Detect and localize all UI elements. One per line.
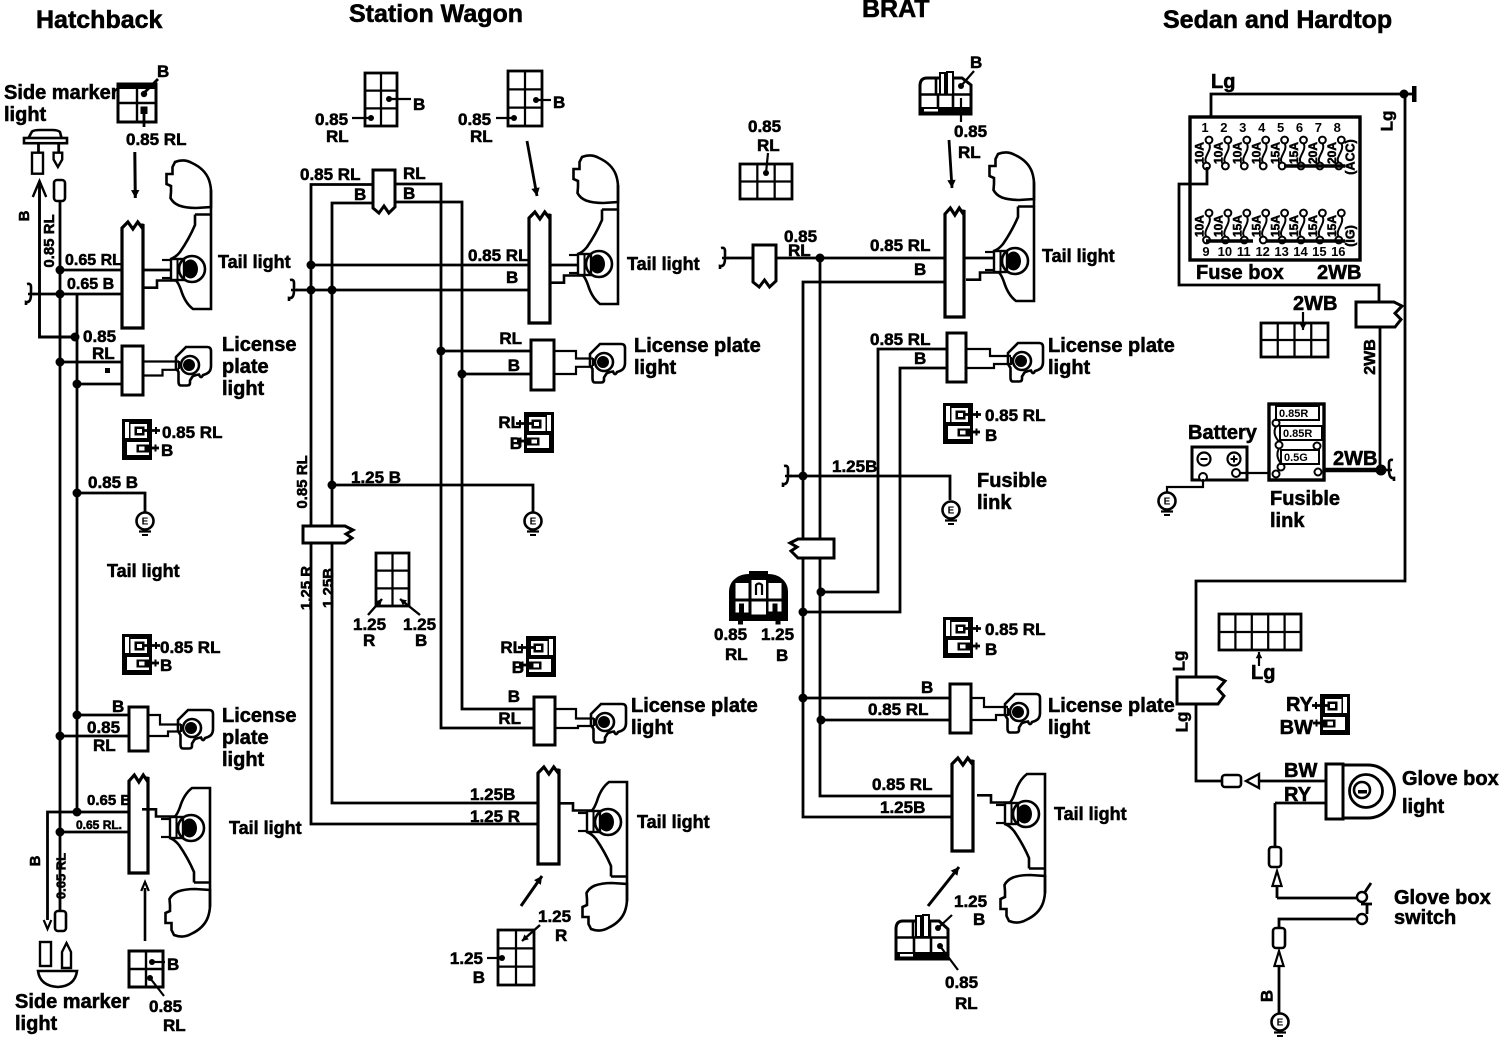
svg-text:B: B bbox=[970, 53, 982, 72]
splice connector (brat) bbox=[790, 539, 834, 558]
svg-text:Lg: Lg bbox=[1377, 111, 1396, 132]
svg-text:E: E bbox=[948, 506, 955, 517]
svg-text:B: B bbox=[512, 658, 524, 677]
wire 0.85 RL to license light 2 (brat) bbox=[821, 719, 971, 722]
svg-text:Tail light: Tail light bbox=[229, 818, 302, 838]
svg-text:0.85 RL: 0.85 RL bbox=[126, 130, 186, 149]
svg-text:10A: 10A bbox=[1212, 142, 1226, 164]
svg-text:B: B bbox=[16, 210, 33, 221]
svg-text:light: light bbox=[222, 749, 265, 771]
svg-text:RL: RL bbox=[757, 136, 780, 155]
svg-text:10: 10 bbox=[1218, 244, 1232, 259]
svg-text:0.85 RL: 0.85 RL bbox=[300, 165, 360, 184]
svg-text:20A: 20A bbox=[1306, 142, 1320, 164]
license plate connector 1 (wagon) bbox=[531, 340, 554, 390]
svg-text:link: link bbox=[1270, 510, 1305, 532]
ground E (sedan bottom) bbox=[1272, 1014, 1289, 1031]
svg-text:light: light bbox=[631, 717, 674, 739]
arrow from connector to tail light connector (wagon) bbox=[527, 141, 537, 196]
svg-text:1.25: 1.25 bbox=[538, 907, 571, 926]
tail light connector bar 2 (wagon) bbox=[538, 767, 559, 864]
svg-text:1.25B: 1.25B bbox=[470, 785, 515, 804]
ground E (wagon) bbox=[525, 513, 542, 530]
license plate light 1 (hatchback) bbox=[176, 347, 211, 386]
splice connector (wagon) bbox=[303, 526, 353, 543]
wire B to license light 1 (brat) bbox=[803, 368, 966, 612]
svg-text:B: B bbox=[508, 687, 520, 706]
tail light connector bar 2 (brat) bbox=[952, 758, 973, 851]
svg-text:E: E bbox=[530, 517, 537, 528]
leads into license light 1 (brat) bbox=[966, 349, 1011, 356]
svg-text:License plate: License plate bbox=[1048, 695, 1175, 717]
svg-text:Hatchback: Hatchback bbox=[36, 6, 163, 34]
svg-text:B: B bbox=[921, 678, 933, 697]
svg-text:Battery: Battery bbox=[1188, 422, 1258, 444]
svg-text:Fusible: Fusible bbox=[1270, 488, 1340, 510]
hook wire end (hatchback) bbox=[26, 284, 35, 305]
connector grid 4x2 (sedan) 2WB bbox=[1261, 323, 1328, 357]
svg-text:8: 8 bbox=[1334, 120, 1341, 135]
svg-text:1.25 B: 1.25 B bbox=[351, 468, 401, 487]
svg-text:Glove box: Glove box bbox=[1394, 887, 1491, 909]
wire B to license light 2 (brat) bbox=[803, 697, 971, 700]
wire B lower to license plate light 1 (hatchback) bbox=[77, 383, 143, 386]
svg-text:RL: RL bbox=[93, 736, 116, 755]
svg-text:RL: RL bbox=[326, 127, 349, 146]
wire 0.85 RL left vertical (wagon) bbox=[311, 185, 538, 825]
svg-text:Tail light: Tail light bbox=[627, 254, 700, 274]
wire B left vertical (wagon) bbox=[332, 203, 538, 803]
arrow down to tail light connector (brat) bbox=[949, 140, 952, 188]
svg-text:light: light bbox=[1048, 357, 1091, 379]
license plate connector 1 (brat) bbox=[947, 333, 966, 382]
ground E (battery) bbox=[1159, 493, 1176, 510]
tail light connector bar 1 (hatchback) bbox=[122, 222, 143, 328]
svg-text:0.85: 0.85 bbox=[149, 997, 182, 1016]
wire B to tail light 1 (wagon) bbox=[296, 289, 529, 292]
svg-text:License plate: License plate bbox=[631, 695, 758, 717]
svg-text:RL: RL bbox=[92, 344, 115, 363]
svg-text:B: B bbox=[161, 441, 173, 460]
license plate light 1 (wagon) bbox=[590, 344, 625, 383]
connector tick at Lg wire end bbox=[1404, 93, 1413, 96]
svg-text:1.25B: 1.25B bbox=[832, 457, 877, 476]
glove box light symbol bbox=[1275, 764, 1395, 819]
svg-text:0.85 RL: 0.85 RL bbox=[41, 214, 58, 267]
svg-text:E: E bbox=[1164, 497, 1171, 508]
svg-text:10A: 10A bbox=[1230, 142, 1244, 164]
svg-text:RY: RY bbox=[1286, 694, 1314, 716]
svg-text:1.25B: 1.25B bbox=[880, 798, 925, 817]
tail light housing 2 (brat) bbox=[977, 774, 1045, 923]
svg-text:License plate: License plate bbox=[634, 335, 761, 357]
tail light housing 1 (wagon) bbox=[550, 155, 618, 304]
svg-text:B: B bbox=[413, 95, 425, 114]
svg-text:E: E bbox=[142, 517, 149, 528]
wire to glove box switch bbox=[1277, 897, 1356, 900]
fuse box outline bbox=[1190, 117, 1360, 260]
svg-text:11: 11 bbox=[1237, 244, 1251, 259]
wire B vertical (brat) bbox=[803, 282, 952, 817]
svg-text:BW: BW bbox=[1284, 760, 1317, 782]
svg-text:0.85: 0.85 bbox=[714, 625, 747, 644]
connector pair 1 (brat) 0.85 RL / B bbox=[943, 403, 981, 444]
svg-text:RL: RL bbox=[498, 413, 521, 432]
svg-text:0.85 RL: 0.85 RL bbox=[985, 620, 1045, 639]
svg-text:RL: RL bbox=[958, 143, 981, 162]
svg-text:0.85 B: 0.85 B bbox=[88, 473, 138, 492]
wire B to license light 1 (wagon) bbox=[462, 373, 554, 376]
connector 3x2 left (brat) bbox=[740, 164, 792, 199]
svg-text:B: B bbox=[157, 62, 169, 81]
wire 0.65 RL to tail light (hatchback) bbox=[60, 269, 171, 272]
connector grid 5x2 (sedan) Lg bbox=[1219, 614, 1301, 650]
svg-text:12: 12 bbox=[1255, 244, 1269, 259]
leads into license light 2 (hatchback) bbox=[148, 715, 181, 725]
leads into license light 2 (brat) bbox=[971, 698, 1008, 707]
side marker light symbol bottom (hatchback) bbox=[40, 942, 51, 966]
license plate light 1 (brat) bbox=[1008, 343, 1043, 382]
connector 2x2 bottom (hatchback) bbox=[129, 951, 163, 987]
connector pair RY / BW (sedan) bbox=[1312, 694, 1350, 735]
svg-text:15A: 15A bbox=[1230, 215, 1244, 237]
wire 0.65 RL to tail light 2 (hatchback) bbox=[60, 831, 148, 834]
svg-text:Lg: Lg bbox=[1169, 651, 1188, 672]
svg-text:15A: 15A bbox=[1268, 215, 1282, 237]
svg-text:Station Wagon: Station Wagon bbox=[349, 0, 523, 28]
wire B vertical (hatchback) bbox=[76, 294, 79, 812]
svg-text:0.85 RL: 0.85 RL bbox=[294, 455, 311, 508]
svg-text:B: B bbox=[510, 434, 522, 453]
wire 0.85 RL left vertical (hatchback) bbox=[59, 200, 62, 911]
tail light housing 1 (hatchback) bbox=[143, 160, 211, 309]
license plate connector 2 (hatchback) bbox=[129, 707, 148, 751]
glove box switch symbol bbox=[1357, 883, 1372, 924]
svg-text:B: B bbox=[508, 356, 520, 375]
svg-text:Side marker: Side marker bbox=[15, 991, 130, 1013]
svg-text:Lg: Lg bbox=[1211, 71, 1235, 93]
wire RL right vertical (wagon) bbox=[395, 184, 534, 728]
license plate connector 2 (wagon) bbox=[534, 697, 555, 745]
svg-text:1.25 R: 1.25 R bbox=[470, 807, 520, 826]
wire 1.25 B to ground (wagon) bbox=[332, 485, 533, 513]
svg-text:Lg: Lg bbox=[1251, 662, 1275, 684]
connector pair 1 (hatchback) 0.85 RL / B bbox=[122, 419, 160, 460]
svg-text:B: B bbox=[776, 646, 788, 665]
wire 0.85 RL to tail light 1 (wagon) bbox=[311, 264, 578, 267]
tail light connector bar 2 (hatchback) bbox=[129, 775, 148, 873]
svg-text:14: 14 bbox=[1293, 244, 1308, 259]
connector pill and arrow (glove box feed) bbox=[1222, 775, 1241, 787]
svg-text:License plate: License plate bbox=[1048, 335, 1175, 357]
connector stub bottom RL (hatchback) bbox=[55, 911, 66, 931]
svg-text:10A: 10A bbox=[1249, 142, 1263, 164]
svg-text:Sedan and Hardtop: Sedan and Hardtop bbox=[1163, 6, 1392, 34]
wire from switch to ground connector bbox=[1279, 919, 1356, 928]
connector pair 2 (brat) 0.85 RL / B bbox=[943, 617, 981, 658]
wire RL vertical (brat) bbox=[820, 258, 952, 796]
svg-text:light: light bbox=[15, 1013, 58, 1035]
license plate connector 2 (brat) bbox=[950, 684, 971, 733]
tail light housing 2 (wagon) bbox=[559, 782, 627, 931]
svg-text:0.65 RL: 0.65 RL bbox=[53, 853, 68, 899]
svg-text:0.85: 0.85 bbox=[954, 122, 987, 141]
svg-text:light: light bbox=[1402, 796, 1445, 818]
svg-text:B: B bbox=[553, 93, 565, 112]
svg-text:Fusible: Fusible bbox=[977, 470, 1047, 492]
svg-text:B: B bbox=[415, 631, 427, 650]
svg-text:0.85: 0.85 bbox=[945, 973, 978, 992]
wire 2WB vertical to fusible link junction bbox=[1379, 327, 1382, 470]
svg-text:0.65 RL.: 0.65 RL. bbox=[76, 818, 122, 832]
connector bottom (brat) bbox=[896, 915, 958, 970]
battery symbol bbox=[1192, 447, 1247, 481]
svg-text:1.25B: 1.25B bbox=[320, 568, 337, 608]
connector pair 1 (wagon) RL / B bbox=[516, 412, 554, 453]
svg-text:light: light bbox=[222, 378, 265, 400]
svg-text:Tail light: Tail light bbox=[1054, 804, 1127, 824]
svg-text:RL: RL bbox=[725, 645, 748, 664]
svg-text:RL: RL bbox=[470, 127, 493, 146]
svg-text:License: License bbox=[222, 705, 296, 727]
svg-text:B: B bbox=[403, 184, 415, 203]
svg-text:0.85: 0.85 bbox=[87, 718, 120, 737]
ground E (brat) bbox=[943, 502, 960, 519]
svg-text:B: B bbox=[914, 349, 926, 368]
license plate light 2 (brat) bbox=[1005, 694, 1040, 733]
svg-text:BW: BW bbox=[1280, 717, 1313, 739]
hook wire end 1.25B (brat) bbox=[783, 466, 792, 487]
svg-text:B: B bbox=[27, 855, 44, 866]
wire Lg down to glove box light bbox=[1196, 704, 1222, 781]
wire Lg from fuse 1 down and around to 2WB connector bbox=[1179, 167, 1379, 303]
svg-text:0.85R: 0.85R bbox=[1283, 428, 1312, 440]
svg-text:RL: RL bbox=[163, 1016, 186, 1035]
connector wavy (sedan glove box feed) bbox=[1177, 677, 1225, 704]
svg-text:Tail light: Tail light bbox=[1042, 246, 1115, 266]
svg-text:light: light bbox=[1048, 717, 1091, 739]
tail light housing 1 (brat) bbox=[966, 152, 1034, 301]
svg-text:switch: switch bbox=[1394, 907, 1456, 929]
svg-text:B: B bbox=[354, 185, 366, 204]
wire B to license plate light 2 (hatchback) bbox=[77, 714, 148, 717]
svg-text:15A: 15A bbox=[1287, 142, 1301, 164]
svg-text:2WB: 2WB bbox=[1362, 339, 1379, 375]
svg-text:0.85 RL: 0.85 RL bbox=[868, 700, 928, 719]
svg-text:B: B bbox=[973, 910, 985, 929]
svg-text:4: 4 bbox=[1258, 120, 1266, 135]
svg-text:RL: RL bbox=[955, 994, 978, 1013]
svg-text:Tail light: Tail light bbox=[637, 812, 710, 832]
wire RY down to switch bbox=[1274, 803, 1277, 847]
tail light connector bar 1 (brat) bbox=[945, 208, 964, 317]
wire B left vertical with up arrow (hatchback) bbox=[40, 181, 74, 337]
svg-text:RL: RL bbox=[498, 709, 521, 728]
leads into license light 2 (wagon) bbox=[555, 709, 594, 719]
connector stub on RL wire (hatchback) bbox=[54, 180, 65, 201]
wire 0.65 B from hook (hatchback) bbox=[33, 293, 122, 296]
svg-text:15A: 15A bbox=[1249, 215, 1263, 237]
svg-text:9: 9 bbox=[1202, 244, 1209, 259]
svg-text:1: 1 bbox=[1201, 120, 1208, 135]
license plate connector 1 (hatchback) bbox=[122, 346, 143, 395]
svg-text:link: link bbox=[977, 492, 1012, 514]
svg-text:RL: RL bbox=[403, 164, 426, 183]
svg-text:1.25: 1.25 bbox=[954, 892, 987, 911]
svg-text:light: light bbox=[4, 104, 47, 126]
svg-text:BRAT: BRAT bbox=[862, 0, 930, 23]
svg-text:0.65 RL: 0.65 RL bbox=[65, 252, 122, 269]
connector pill (RY) bbox=[1269, 847, 1281, 867]
svg-text:15: 15 bbox=[1312, 244, 1326, 259]
svg-text:0.85 RL: 0.85 RL bbox=[870, 330, 930, 349]
svg-text:13: 13 bbox=[1274, 244, 1288, 259]
wire 0.85 RL to license plate light 1 (hatchback) bbox=[60, 361, 143, 364]
svg-text:1.25 R: 1.25 R bbox=[298, 566, 315, 610]
arrow to tail connector 2 (brat) bbox=[928, 867, 959, 906]
svg-text:0.65 B: 0.65 B bbox=[87, 792, 131, 809]
svg-text:light: light bbox=[634, 357, 677, 379]
svg-text:plate: plate bbox=[222, 727, 269, 749]
svg-text:15A: 15A bbox=[1306, 215, 1320, 237]
svg-text:B: B bbox=[985, 640, 997, 659]
svg-text:plate: plate bbox=[222, 356, 269, 378]
arrow up (B) bbox=[1278, 966, 1281, 1014]
wire 0.85 RL to license plate light 2 (hatchback) bbox=[60, 735, 148, 738]
svg-text:0.85 RL: 0.85 RL bbox=[160, 638, 220, 657]
svg-text:15A: 15A bbox=[1325, 215, 1339, 237]
wire 1.25B to ground (brat) bbox=[790, 476, 950, 500]
svg-text:B: B bbox=[160, 656, 172, 675]
svg-text:10A: 10A bbox=[1193, 215, 1207, 237]
connector bar small (wagon rear harness) bbox=[373, 170, 395, 213]
arrow down to tail light connector (hatchback) bbox=[133, 152, 137, 198]
connector top (brat) with B pin bbox=[920, 71, 974, 122]
connector 2x3 top-right (wagon) bbox=[508, 71, 542, 126]
svg-text:R: R bbox=[363, 631, 375, 650]
hook wire end (wagon) bbox=[289, 280, 298, 301]
svg-text:B: B bbox=[914, 260, 926, 279]
svg-text:(ACC): (ACC) bbox=[1343, 139, 1357, 174]
svg-text:B: B bbox=[473, 968, 485, 987]
connector 2x3 detail (wagon splice) bbox=[376, 553, 409, 606]
tail light housing 2 (hatchback) bbox=[142, 788, 210, 937]
svg-text:2WB: 2WB bbox=[1317, 262, 1361, 284]
hook wire end (sedan 2WB) bbox=[1385, 460, 1394, 481]
svg-text:15A: 15A bbox=[1287, 215, 1301, 237]
svg-text:15A: 15A bbox=[1268, 142, 1282, 164]
wire RL to license light 1 (wagon) bbox=[441, 350, 554, 353]
svg-text:10A: 10A bbox=[1193, 142, 1207, 164]
svg-text:Fuse box: Fuse box bbox=[1196, 262, 1284, 284]
wire B right vertical (wagon) bbox=[395, 202, 534, 709]
connector 2x3 bottom detail (wagon) bbox=[498, 930, 534, 985]
svg-text:5: 5 bbox=[1277, 120, 1284, 135]
connector wavy 2WB (sedan) bbox=[1356, 302, 1402, 327]
connector pill (B) bbox=[1273, 928, 1285, 948]
junction dot B join bbox=[71, 333, 80, 342]
license plate light 2 (wagon) bbox=[591, 704, 626, 743]
svg-text:R: R bbox=[555, 926, 567, 945]
svg-text:RL: RL bbox=[500, 638, 523, 657]
wire 0.65 B to tail light 2 (hatchback) bbox=[48, 812, 149, 920]
tail light connector bar 1 (wagon) bbox=[529, 212, 550, 323]
fusible link box (sedan) bbox=[1269, 404, 1324, 480]
svg-text:3: 3 bbox=[1239, 120, 1246, 135]
svg-text:0.5G: 0.5G bbox=[1284, 452, 1308, 464]
svg-text:E: E bbox=[1277, 1018, 1284, 1029]
wire Lg from fuse box to right side bbox=[1211, 94, 1404, 134]
wire battery positive to fusible link bbox=[1240, 472, 1269, 474]
svg-text:10A: 10A bbox=[1212, 215, 1226, 237]
fuses row 1 (1-8) with ratings and ACC bus bbox=[1193, 120, 1358, 175]
license plate light 2 (hatchback) bbox=[178, 710, 213, 749]
leads into license light 1 (wagon) bbox=[554, 351, 593, 359]
arrow up into tail connector 2 (hatchback) bbox=[144, 888, 147, 941]
svg-text:Lg: Lg bbox=[1172, 712, 1191, 733]
connector 2x3 top-left (wagon) bbox=[365, 73, 397, 126]
wire RL to license light 1 (brat) bbox=[821, 349, 966, 592]
arrow to tail connector 2 (wagon) bbox=[521, 876, 542, 906]
svg-text:1.25: 1.25 bbox=[450, 949, 483, 968]
svg-text:Side marker: Side marker bbox=[4, 82, 119, 104]
svg-text:0.85 RL: 0.85 RL bbox=[468, 246, 528, 265]
svg-text:Tail light: Tail light bbox=[218, 252, 291, 272]
side marker light symbol top (hatchback) bbox=[29, 130, 62, 138]
connector pair 2 (wagon) RL / B bbox=[518, 636, 556, 677]
svg-text:6: 6 bbox=[1296, 120, 1303, 135]
svg-text:2WB: 2WB bbox=[1333, 448, 1377, 470]
arrow up (RY) bbox=[1276, 886, 1279, 898]
connector bar small (brat harness) bbox=[753, 245, 776, 287]
svg-text:B: B bbox=[167, 955, 179, 974]
wire battery negative to ground bbox=[1167, 479, 1203, 492]
svg-text:B: B bbox=[985, 426, 997, 445]
svg-text:2: 2 bbox=[1220, 120, 1227, 135]
wire Lg right vertical down to glove box circuit bbox=[1196, 94, 1405, 677]
svg-text:2WB: 2WB bbox=[1293, 293, 1337, 315]
wire thick 2WB from fusible link bbox=[1324, 468, 1382, 473]
fuses row 2 (9-16) with ratings and IG bus bbox=[1193, 210, 1358, 259]
connector 2x2 top (hatchback) with B pin bbox=[118, 84, 156, 122]
wire 0.85 RL feed with junction (brat) bbox=[776, 257, 994, 260]
svg-text:B: B bbox=[506, 268, 518, 287]
svg-text:0.65 B: 0.65 B bbox=[67, 276, 114, 293]
svg-text:Tail light: Tail light bbox=[107, 561, 180, 581]
svg-text:B: B bbox=[1257, 990, 1276, 1002]
wire 0.85 B to ground (hatchback) bbox=[77, 493, 145, 513]
svg-text:RL: RL bbox=[788, 241, 811, 260]
connector pair 2 (hatchback) 0.85 RL / B bbox=[122, 634, 160, 675]
hook and lead into small connector (brat) bbox=[720, 248, 729, 269]
svg-text:7: 7 bbox=[1315, 120, 1322, 135]
svg-text:License: License bbox=[222, 334, 296, 356]
connector plug (brat) 0.85 RL / 1.25 B bbox=[729, 571, 788, 625]
ground E (hatchback) bbox=[137, 513, 154, 530]
svg-text:1.25: 1.25 bbox=[761, 625, 794, 644]
svg-text:0.85 RL: 0.85 RL bbox=[162, 423, 222, 442]
svg-text:0.85 RL: 0.85 RL bbox=[985, 406, 1045, 425]
svg-text:0.85: 0.85 bbox=[748, 117, 781, 136]
svg-text:0.85R: 0.85R bbox=[1279, 408, 1308, 420]
wire BW into glove box light bbox=[1259, 780, 1326, 783]
svg-text:20A: 20A bbox=[1325, 142, 1339, 164]
svg-text:Glove box: Glove box bbox=[1402, 768, 1499, 790]
svg-text:RL: RL bbox=[499, 329, 522, 348]
svg-text:0.85 RL: 0.85 RL bbox=[870, 236, 930, 255]
svg-text:B: B bbox=[112, 697, 124, 716]
svg-text:(IG): (IG) bbox=[1343, 225, 1357, 247]
